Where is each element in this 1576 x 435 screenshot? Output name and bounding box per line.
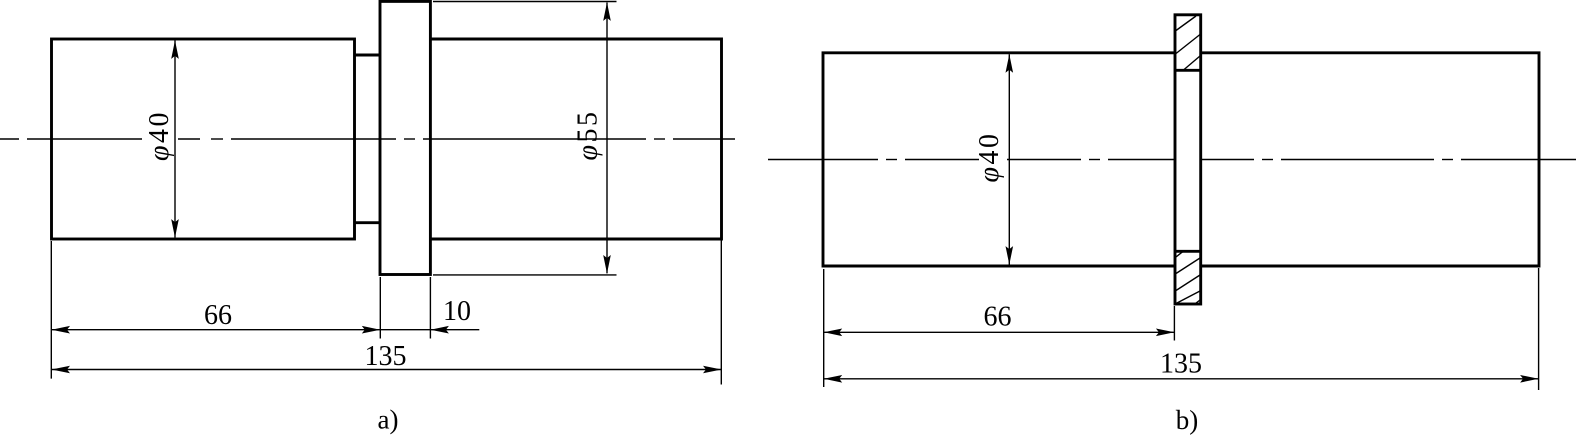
extension line right (x=721.3, fig a dim 135) (720, 240, 722, 385)
arrow left end 135 (fig a) (52, 366, 71, 374)
svg-text:66: 66 (984, 302, 1012, 333)
arrow left end 135 (fig b) (824, 375, 843, 383)
arrow up (phi40 b) (1006, 54, 1014, 72)
neck groove between cylinder and flange (fig a) (355, 55, 381, 223)
arrow down (phi55 a) (603, 255, 611, 274)
svg-text:135: 135 (365, 341, 407, 372)
extension line ring left (fig b dim 66) (1173, 306, 1175, 341)
hatching of ring top section (fig b) (1176, 16, 1200, 70)
centerline (axis) of figure b (768, 159, 1576, 161)
right cylinder (fig a) (430, 39, 721, 239)
extension line flange right (fig a dim 10) (429, 277, 431, 339)
flange phi55 (fig a) (380, 1, 430, 274)
arrow down (phi40 b) (1006, 246, 1014, 265)
ring / washer outer rectangle (fig b) (1175, 15, 1201, 304)
dimension phi55 (fig a): extension line bottom (433, 274, 617, 276)
ring inner edge top (fig b) (1175, 69, 1201, 72)
arrow right end 135 (fig b) (1520, 375, 1539, 383)
arrow right end 66 (fig b) (1156, 329, 1175, 337)
dimension 66 (fig b): dimension line (824, 331, 1175, 333)
arrow left end 66 (fig a) (52, 326, 71, 334)
svg-text:135: 135 (1160, 348, 1202, 379)
arrow up (phi55 a) (603, 2, 611, 21)
dimension phi40 (fig b): dimension line (1008, 54, 1010, 264)
arrow 10 pointing left (fig a) (430, 326, 449, 334)
dimension phi55 (fig a): extension line top (433, 1, 617, 3)
dimension phi55 (fig a): dimension line (606, 3, 608, 274)
svg-text:b): b) (1176, 405, 1199, 435)
arrow down (phi40 a) (171, 219, 179, 238)
extension line left (x=51.3, fig a dims 66/135) (50, 241, 52, 379)
extension line flange left (fig a dims 66/10) (379, 277, 381, 339)
centerline (axis) of figure a (0, 138, 735, 140)
dimension phi40 (fig a): dimension line (174, 41, 176, 238)
arrow up (phi40 a) (171, 40, 179, 59)
arrow right end 66 (fig a) (362, 326, 381, 334)
svg-text:φ40: φ40 (974, 132, 1005, 183)
shaft phi40 (fig b): outline interrupted by ring (823, 53, 1539, 266)
svg-text:a): a) (378, 405, 399, 435)
arrow left end 66 (fig b) (824, 329, 843, 337)
svg-text:66: 66 (204, 300, 232, 331)
svg-text:10: 10 (443, 296, 471, 327)
svg-text:φ40: φ40 (144, 110, 175, 161)
svg-text:φ55: φ55 (573, 110, 604, 161)
arrow right end 135 (fig a) (703, 366, 722, 374)
dimension 66/10 (fig a): shared dimension line (52, 329, 480, 331)
dimension 135 (fig b): dimension line (824, 378, 1539, 380)
extension line right (x=1538.6, fig b dim 135) (1538, 268, 1540, 390)
left cylinder phi40 (fig a) (52, 39, 355, 239)
dimension 135 (fig a): dimension line (52, 369, 722, 371)
ring inner edge bottom (fig b) (1175, 250, 1201, 253)
extension line left (x=823.7, fig b dims 66/135) (823, 269, 825, 387)
hatching of ring bottom section (fig b) (1176, 252, 1200, 304)
